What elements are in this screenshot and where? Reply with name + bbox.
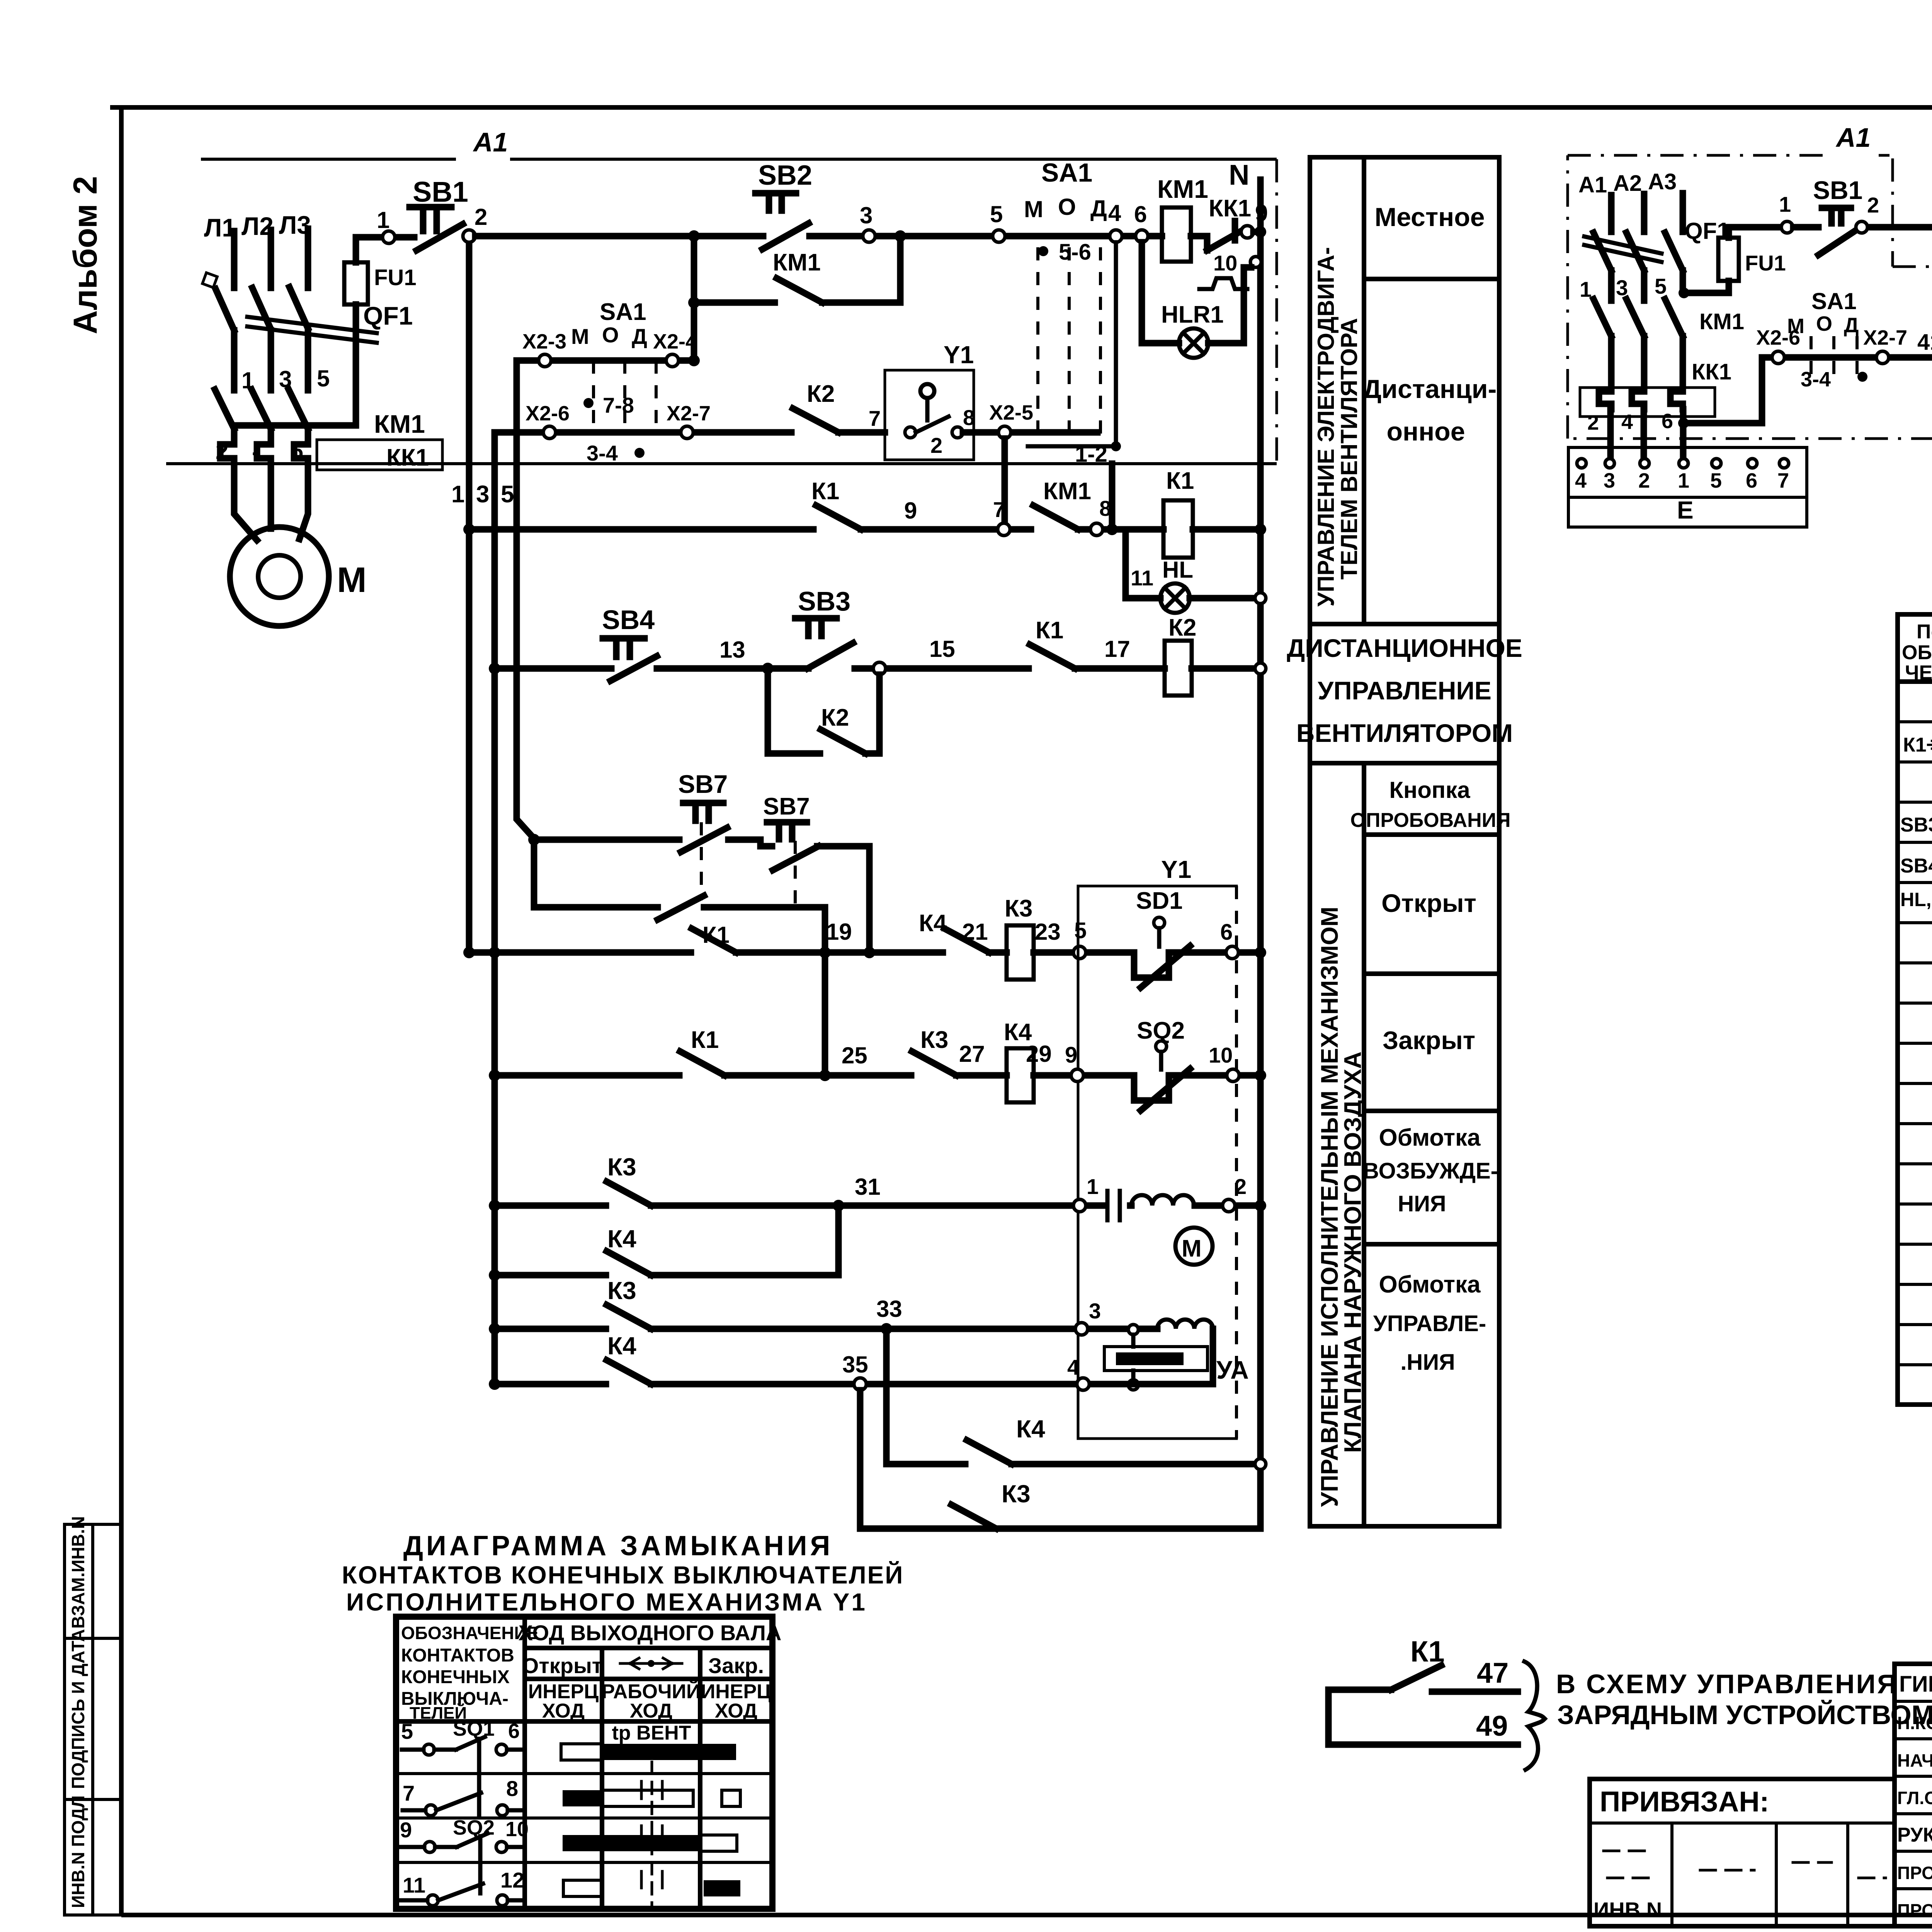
svg-text:ИСПОЛНИТЕЛЬНОГО МЕХАНИЗМА Y1: ИСПОЛНИТЕЛЬНОГО МЕХАНИЗМА Y1 — [346, 1588, 867, 1616]
svg-text:6: 6 — [1746, 469, 1757, 492]
svg-text:5: 5 — [317, 366, 330, 391]
svg-text:8: 8 — [963, 405, 975, 430]
svg-text:Х2-7: Х2-7 — [1863, 326, 1907, 349]
svg-text:3: 3 — [1604, 469, 1615, 492]
svg-text:К4: К4 — [1016, 1415, 1045, 1443]
svg-text:6: 6 — [1220, 920, 1233, 945]
svg-text:SD1: SD1 — [1136, 888, 1183, 914]
svg-text:3: 3 — [1616, 276, 1628, 300]
svg-text:6: 6 — [291, 438, 303, 464]
svg-text:ПОДПИСЬ И ДАТА: ПОДПИСЬ И ДАТА — [68, 1629, 88, 1789]
svg-text:онное: онное — [1386, 417, 1465, 446]
svg-text:21: 21 — [962, 919, 988, 945]
svg-text:SB7: SB7 — [678, 770, 728, 798]
svg-text:ОБОЗНА: ОБОЗНА — [1902, 641, 1932, 664]
svg-text:К3: К3 — [607, 1153, 636, 1181]
svg-text:7: 7 — [993, 497, 1005, 522]
svg-text:А3: А3 — [1648, 169, 1677, 194]
svg-text:HL,HL1: HL,HL1 — [1900, 889, 1932, 910]
svg-text:1: 1 — [241, 367, 254, 393]
svg-text:ПРИВЯЗАН:: ПРИВЯЗАН: — [1600, 1786, 1769, 1818]
svg-text:КОНТАКТОВ: КОНТАКТОВ — [401, 1645, 514, 1666]
svg-text:N: N — [1229, 159, 1249, 191]
svg-text:КК1: КК1 — [1692, 359, 1731, 384]
svg-text:КМ1: КМ1 — [1699, 309, 1744, 334]
svg-text:ПРОЕКТ.: ПРОЕКТ. — [1897, 1863, 1932, 1883]
svg-text:Закр.: Закр. — [708, 1653, 764, 1678]
svg-text:А2: А2 — [1613, 171, 1642, 196]
svg-text:1: 1 — [377, 207, 389, 233]
svg-text:5: 5 — [401, 1719, 413, 1743]
svg-text:SB7: SB7 — [763, 793, 810, 820]
svg-text:SA1: SA1 — [1041, 158, 1092, 187]
svg-text:2: 2 — [1638, 469, 1650, 492]
svg-text:2: 2 — [1867, 193, 1879, 217]
svg-text:3: 3 — [860, 202, 872, 228]
svg-text:ИНВ.N ПОДЛ: ИНВ.N ПОДЛ — [68, 1795, 88, 1908]
svg-text:SQ2: SQ2 — [453, 1816, 495, 1839]
svg-text:23: 23 — [1035, 919, 1061, 945]
svg-text:SB3: SB3 — [798, 586, 850, 616]
svg-text:9: 9 — [904, 498, 917, 524]
svg-text:Д: Д — [1844, 314, 1859, 337]
svg-text:А1: А1 — [1835, 122, 1871, 153]
svg-text:ХОД: ХОД — [542, 1700, 585, 1722]
svg-text:SA1: SA1 — [600, 299, 646, 325]
svg-text:ВОЗБУЖДЕ-: ВОЗБУЖДЕ- — [1363, 1158, 1498, 1184]
svg-text:ОПРОБОВАНИЯ: ОПРОБОВАНИЯ — [1350, 809, 1511, 832]
svg-text:К4: К4 — [607, 1332, 636, 1360]
svg-text:ЗАРЯДНЫМ УСТРОЙСТВОМ: ЗАРЯДНЫМ УСТРОЙСТВОМ — [1557, 1699, 1932, 1730]
svg-text:Y1: Y1 — [944, 341, 974, 369]
svg-text:29: 29 — [1026, 1041, 1052, 1067]
svg-text:Кнопка: Кнопка — [1389, 777, 1470, 803]
svg-text:Обмотка: Обмотка — [1379, 1124, 1481, 1151]
svg-text:7: 7 — [1777, 469, 1789, 492]
svg-text:SB3;SB5: SB3;SB5 — [1900, 814, 1932, 836]
svg-text:Х2-7: Х2-7 — [667, 402, 711, 425]
svg-text:10: 10 — [505, 1818, 529, 1841]
svg-text:Обмотка: Обмотка — [1379, 1271, 1481, 1298]
svg-text:ИНВ.N: ИНВ.N — [1594, 1898, 1662, 1922]
svg-text:4: 4 — [1108, 200, 1121, 226]
svg-text:1: 1 — [1580, 277, 1592, 301]
svg-text:К2: К2 — [1168, 614, 1196, 641]
svg-text:КМ1: КМ1 — [1043, 478, 1091, 505]
svg-text:SA1: SA1 — [1811, 288, 1857, 314]
svg-text:6: 6 — [508, 1719, 520, 1743]
svg-text:М: М — [1182, 1235, 1202, 1262]
svg-text:QF1: QF1 — [1685, 218, 1730, 244]
svg-text:SB1: SB1 — [1813, 176, 1862, 204]
svg-text:К2: К2 — [821, 704, 849, 731]
svg-text:3: 3 — [476, 481, 489, 508]
svg-text:Открыт: Открыт — [522, 1653, 602, 1678]
svg-text:31: 31 — [855, 1174, 881, 1200]
svg-text:М: М — [1787, 315, 1804, 338]
svg-text:SB4: SB4 — [602, 605, 655, 635]
svg-text:5: 5 — [1710, 469, 1722, 492]
svg-text:КК1: КК1 — [1209, 195, 1251, 222]
svg-text:К3: К3 — [920, 1027, 948, 1053]
svg-text:1: 1 — [451, 481, 464, 508]
svg-text:27: 27 — [959, 1041, 985, 1067]
svg-text:5: 5 — [1655, 274, 1667, 298]
svg-text:КМ1: КМ1 — [1157, 175, 1208, 203]
svg-text:SB4;SB6: SB4;SB6 — [1900, 855, 1932, 877]
svg-text:3: 3 — [279, 366, 292, 392]
svg-text:1: 1 — [1678, 469, 1689, 492]
svg-text:5-6: 5-6 — [1059, 240, 1091, 265]
svg-text:11: 11 — [1131, 566, 1153, 590]
svg-text:М: М — [337, 560, 367, 600]
svg-text:К3: К3 — [1005, 895, 1032, 922]
svg-text:33: 33 — [876, 1296, 902, 1322]
svg-text:41: 41 — [1917, 330, 1932, 355]
svg-text:Х2-3: Х2-3 — [522, 330, 566, 353]
svg-text:1: 1 — [1087, 1174, 1099, 1199]
svg-text:FU1: FU1 — [374, 265, 417, 290]
svg-text:УА: УА — [1216, 1355, 1249, 1384]
svg-text:К1: К1 — [1036, 617, 1063, 644]
svg-text:9: 9 — [400, 1818, 412, 1842]
svg-text:Х2-5: Х2-5 — [989, 401, 1033, 424]
svg-text:К1: К1 — [1166, 468, 1194, 494]
svg-text:ЧЕНИЕ: ЧЕНИЕ — [1905, 662, 1932, 684]
svg-text:УПРАВЛЕНИЕ ЭЛЕКТРОДВИГА-: УПРАВЛЕНИЕ ЭЛЕКТРОДВИГА- — [1313, 247, 1339, 607]
svg-text:25: 25 — [842, 1043, 867, 1068]
svg-text:7: 7 — [403, 1781, 415, 1805]
svg-text:К3: К3 — [607, 1277, 636, 1304]
svg-text:35: 35 — [842, 1352, 868, 1378]
svg-text:Y1: Y1 — [1161, 855, 1191, 883]
svg-text:ХОД ВЫХОДНОГО ВАЛА: ХОД ВЫХОДНОГО ВАЛА — [519, 1621, 782, 1645]
svg-text:КОНЕЧНЫХ: КОНЕЧНЫХ — [401, 1667, 510, 1687]
svg-text:19: 19 — [826, 919, 852, 945]
svg-text:УПРАВЛЕНИЕ: УПРАВЛЕНИЕ — [1318, 676, 1492, 705]
svg-text:13: 13 — [719, 637, 745, 663]
svg-text:О: О — [602, 323, 619, 347]
svg-text:Альбом 2: Альбом 2 — [67, 176, 104, 334]
svg-text:2: 2 — [216, 438, 228, 464]
svg-text:М: М — [1024, 196, 1043, 222]
svg-text:ГЛ.СПЕЦ: ГЛ.СПЕЦ — [1897, 1788, 1932, 1808]
svg-text:К4: К4 — [919, 910, 947, 937]
svg-text:HLR1: HLR1 — [1161, 301, 1224, 328]
svg-text:3: 3 — [1089, 1299, 1101, 1323]
svg-text:ХОД: ХОД — [630, 1700, 672, 1722]
svg-text:4: 4 — [1621, 410, 1633, 434]
svg-text:О: О — [1816, 312, 1832, 335]
svg-text:47: 47 — [1477, 1657, 1509, 1689]
svg-text:7: 7 — [869, 406, 881, 430]
svg-text:КК1: КК1 — [386, 444, 429, 471]
svg-text:49: 49 — [1476, 1710, 1508, 1742]
svg-text:НАЧ.ОТД: НАЧ.ОТД — [1897, 1750, 1932, 1770]
svg-text:М: М — [571, 324, 589, 349]
svg-text:Дистанци-: Дистанци- — [1363, 374, 1497, 404]
svg-text:6: 6 — [1134, 201, 1147, 227]
svg-text:Закрыт: Закрыт — [1383, 1026, 1475, 1054]
svg-text:ДИАГРАММА ЗАМЫКАНИЯ: ДИАГРАММА ЗАМЫКАНИЯ — [403, 1531, 833, 1561]
svg-text:4: 4 — [1067, 1355, 1079, 1379]
svg-text:17: 17 — [1104, 636, 1130, 662]
svg-text:Д: Д — [1090, 196, 1107, 221]
svg-text:12: 12 — [500, 1868, 524, 1892]
svg-text:SB1: SB1 — [413, 176, 468, 208]
svg-text:SQ1: SQ1 — [453, 1717, 495, 1740]
svg-text:Поз.: Поз. — [1917, 621, 1932, 643]
svg-text:В СХЕМУ УПРАВЛЕНИЯ: В СХЕМУ УПРАВЛЕНИЯ — [1556, 1669, 1898, 1699]
svg-text:2: 2 — [1235, 1174, 1247, 1199]
svg-text:К4: К4 — [607, 1225, 636, 1253]
svg-text:Д: Д — [632, 324, 647, 349]
svg-text:9: 9 — [1065, 1043, 1077, 1068]
svg-text:5: 5 — [1074, 918, 1087, 943]
svg-text:5: 5 — [501, 481, 514, 508]
svg-text:Х2-4: Х2-4 — [653, 330, 697, 353]
svg-text:УПРАВЛЕ-: УПРАВЛЕ- — [1373, 1311, 1486, 1336]
svg-text:К1: К1 — [702, 922, 730, 948]
svg-text:HL: HL — [1162, 557, 1193, 583]
svg-text:.НИЯ: .НИЯ — [1400, 1350, 1455, 1375]
svg-text:5: 5 — [990, 201, 1003, 227]
svg-text:К3: К3 — [1002, 1480, 1031, 1508]
svg-text:УПРАВЛЕНИЕ ИСПОЛНИТЕЛЬНЫМ МЕ: УПРАВЛЕНИЕ ИСПОЛНИТЕЛЬНЫМ МЕХАНИЗМОМ — [1316, 906, 1343, 1507]
svg-text:1-2: 1-2 — [1075, 442, 1107, 467]
svg-text:ХОД: ХОД — [715, 1700, 757, 1722]
svg-text:3-4: 3-4 — [587, 441, 618, 465]
svg-text:О: О — [1058, 194, 1076, 220]
svg-text:КЛАПАНА НАРУЖНОГО ВОЗДУХА: КЛАПАНА НАРУЖНОГО ВОЗДУХА — [1340, 1051, 1366, 1453]
svg-text:2: 2 — [1587, 411, 1599, 434]
svg-text:ГИП: ГИП — [1899, 1672, 1932, 1697]
svg-text:4: 4 — [1575, 469, 1587, 492]
svg-text:Е: Е — [1677, 496, 1694, 524]
svg-text:К1: К1 — [811, 478, 839, 505]
svg-text:10: 10 — [1213, 251, 1237, 275]
svg-text:КОНТАКТОВ КОНЕЧНЫХ ВЫКЛЮЧАТЕЛЕ: КОНТАКТОВ КОНЕЧНЫХ ВЫКЛЮЧАТЕЛЕЙ — [342, 1561, 904, 1589]
svg-text:К1: К1 — [691, 1027, 719, 1053]
svg-text:КМ1: КМ1 — [374, 410, 425, 438]
svg-text:-: - — [252, 439, 260, 465]
svg-text:10: 10 — [1209, 1043, 1233, 1067]
svg-text:К2: К2 — [807, 381, 835, 407]
svg-text:8: 8 — [506, 1776, 518, 1801]
svg-text:15: 15 — [929, 636, 955, 662]
svg-text:1: 1 — [1779, 192, 1791, 216]
svg-text:Открыт: Открыт — [1381, 889, 1476, 917]
svg-text:11: 11 — [403, 1873, 425, 1897]
svg-text:ПРОВЕР: ПРОВЕР — [1897, 1900, 1932, 1920]
svg-text:7-8: 7-8 — [603, 393, 634, 417]
svg-text:НИЯ: НИЯ — [1398, 1191, 1446, 1216]
svg-text:6: 6 — [1662, 410, 1673, 433]
svg-text:2: 2 — [930, 433, 942, 457]
svg-text:tр ВЕНТ: tр ВЕНТ — [612, 1722, 691, 1744]
svg-text:SB2: SB2 — [758, 160, 812, 191]
svg-text:ДИСТАНЦИОННОЕ: ДИСТАНЦИОННОЕ — [1287, 634, 1522, 662]
svg-text:ВЕНТИЛЯТОРОМ: ВЕНТИЛЯТОРОМ — [1296, 719, 1513, 747]
svg-text:2: 2 — [474, 204, 487, 230]
svg-text:3-4: 3-4 — [1801, 368, 1831, 391]
svg-text:К1÷К4: К1÷К4 — [1903, 734, 1932, 756]
svg-text:КМ1: КМ1 — [773, 249, 821, 276]
svg-text:ВЗАМ.ИНВ.N: ВЗАМ.ИНВ.N — [68, 1516, 88, 1629]
svg-text:РУК ГР.: РУК ГР. — [1897, 1824, 1932, 1846]
svg-text:QF1: QF1 — [363, 301, 413, 330]
svg-text:Х2-6: Х2-6 — [526, 402, 570, 425]
svg-text:FU1: FU1 — [1745, 251, 1786, 275]
svg-text:ТЕЛЕМ ВЕНТИЛЯТОРА: ТЕЛЕМ ВЕНТИЛЯТОРА — [1336, 318, 1362, 580]
svg-text:А1: А1 — [1578, 172, 1607, 197]
svg-text:Местное: Местное — [1374, 202, 1485, 232]
svg-text:А1: А1 — [473, 127, 508, 157]
svg-text:SQ2: SQ2 — [1137, 1017, 1185, 1044]
